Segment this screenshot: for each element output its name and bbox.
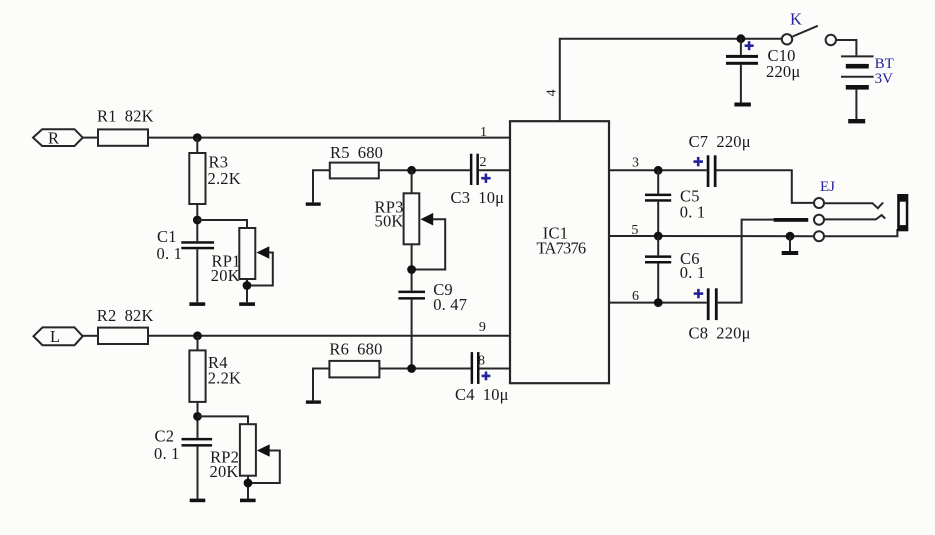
wire C6 to pin6 line [657, 264, 659, 303]
capacitor C4 10u [471, 352, 480, 384]
wire IC pin 4 to supply rail [560, 39, 782, 122]
wire junction to R3 [196, 138, 198, 153]
wire C7 to jack tip contact [717, 170, 814, 203]
svg-text:8: 8 [478, 353, 485, 368]
resistor R4 2.2K [189, 350, 205, 402]
node jack contact 3 [814, 231, 824, 241]
wire C9 to R6/C4 node [411, 300, 413, 369]
svg-text:4: 4 [545, 89, 560, 96]
wire C10 to ground [740, 65, 742, 103]
node junction R1/R3 [193, 133, 202, 142]
wire RP2 bottom [247, 476, 249, 499]
node junction R4/C2/RP2 [193, 412, 202, 421]
svg-text:EJ: EJ [820, 179, 835, 195]
ground RP2 [240, 499, 256, 503]
wire R3 to C1 [196, 204, 198, 241]
svg-text:5: 5 [631, 223, 638, 238]
svg-text:6: 6 [632, 289, 639, 304]
node junction R5/RP3/C3 [407, 166, 416, 175]
node junction pin5/ground [786, 232, 795, 241]
wire C1 to ground [196, 249, 198, 302]
ground RP1 [239, 302, 255, 306]
resistor R1 82K [98, 129, 148, 145]
wire C6 top [657, 236, 659, 255]
node junction R3/C1/RP1 [193, 216, 202, 225]
resistor R6 680 [329, 361, 379, 378]
wire junction to RP3 [411, 170, 413, 193]
svg-text:R2 82K: R2 82K [97, 306, 154, 325]
wire jack contact 3 to barrel [824, 229, 897, 236]
ground C2 [190, 499, 206, 503]
node jack contact 2 [814, 215, 824, 225]
wire jack contact 2 switch [824, 215, 885, 219]
wire RP3 to C9 [411, 244, 413, 290]
wire C5 to pin5 line [657, 202, 659, 236]
wire R input to R1 [83, 137, 98, 139]
node L input terminal [34, 327, 83, 345]
svg-text:BT: BT [875, 56, 894, 72]
wire R6 to C4 [379, 368, 470, 370]
node jack contact 1 [814, 198, 824, 208]
svg-text:9: 9 [479, 320, 486, 335]
polarity plus C4 [482, 372, 491, 381]
node junction R6/C9/C4 [407, 364, 416, 373]
wire IC pin 6 to C8 [609, 302, 707, 304]
svg-text:R5 680: R5 680 [330, 143, 383, 162]
capacitor C3 10u [470, 154, 479, 185]
svg-text:0. 1: 0. 1 [680, 202, 706, 221]
capacitor C1 0.1 [181, 241, 214, 249]
node junction RP1 wiper/bottom [243, 281, 252, 290]
polarity plus C10 [745, 41, 754, 50]
wire RP1 bottom [246, 279, 248, 302]
svg-text:0. 1: 0. 1 [680, 263, 706, 282]
capacitor C7 220u [707, 155, 717, 187]
wire C10 top [740, 39, 742, 55]
ground battery [848, 119, 865, 123]
svg-text:K: K [790, 10, 802, 29]
wire jack contact 1 switch [824, 203, 883, 209]
wire junction to R4 [197, 336, 199, 351]
svg-text:1: 1 [480, 125, 487, 140]
node junction pin6/C6/C8 [654, 298, 663, 307]
battery BT 3V [841, 56, 874, 89]
svg-text:R1 82K: R1 82K [97, 107, 154, 126]
earphone jack EJ barrel [897, 194, 908, 231]
node junction pin5/C6 [654, 232, 663, 241]
capacitor C2 0.1 [182, 438, 213, 447]
node junction RP2 wiper/bottom [244, 479, 253, 488]
wire R5 to C3 [379, 169, 470, 171]
wire C3 to IC pin 2 [479, 169, 511, 171]
op-amp U1 IC1 TA7376 body [510, 121, 609, 383]
wire battery to ground [855, 90, 857, 119]
node junction RP3/C9 [407, 265, 416, 274]
wire L input to R2 [83, 335, 98, 337]
ground C10 [734, 103, 751, 107]
svg-text:3V: 3V [875, 71, 894, 87]
capacitor C6 0.1 [645, 255, 671, 263]
potentiometer RP2 20K [240, 424, 280, 483]
wire IC pin 3 to C7 [609, 169, 707, 171]
ground R6 [306, 400, 321, 403]
svg-text:50K: 50K [375, 212, 404, 231]
svg-text:20K: 20K [211, 266, 240, 285]
wire junction to RP2 top [198, 416, 249, 424]
polarity plus C7 [694, 157, 704, 166]
node junction supply/C10 [737, 34, 746, 43]
svg-text:R: R [48, 129, 59, 148]
wire C2 to ground [197, 447, 199, 499]
ground jack common [782, 251, 799, 255]
resistor R3 2.2K [189, 153, 205, 204]
capacitor C9 0.47 [398, 291, 425, 300]
svg-text:C3 10μ: C3 10μ [451, 188, 505, 207]
resistor R5 680 [330, 163, 379, 179]
svg-text:2.2K: 2.2K [208, 169, 241, 188]
capacitor C5 0.1 [645, 194, 671, 202]
svg-text:0. 1: 0. 1 [154, 444, 180, 463]
svg-text:C4 10μ: C4 10μ [455, 385, 509, 404]
svg-text:C8 220μ: C8 220μ [689, 323, 751, 342]
wire junction to RP1 top [197, 220, 247, 228]
node junction pin3/C5/C7 [654, 166, 663, 175]
svg-text:2.2K: 2.2K [208, 368, 241, 387]
svg-text:3: 3 [632, 155, 639, 170]
wire R4 to C2 [197, 402, 199, 438]
ground R5 [306, 202, 321, 205]
node junction R2/R4 [193, 331, 202, 340]
capacitor C8 220u [707, 288, 718, 320]
svg-text:2: 2 [480, 155, 487, 170]
svg-text:TA7376: TA7376 [537, 239, 586, 258]
wire R1 to IC pin 1 [148, 137, 511, 139]
polarity plus C3 [481, 174, 490, 183]
svg-text:C7 220μ: C7 220μ [689, 132, 751, 151]
jack ring bar [774, 218, 809, 222]
svg-text:220μ: 220μ [766, 62, 800, 81]
wire C8 to jack ring contact [718, 220, 774, 303]
switch K [782, 26, 836, 45]
node R input terminal [33, 129, 83, 146]
wire pin3 junction to C5 [657, 170, 659, 193]
svg-text:0. 1: 0. 1 [157, 244, 183, 263]
capacitor C10 220u [726, 55, 758, 65]
wire ground to R6 [313, 369, 329, 401]
svg-text:R6 680: R6 680 [329, 340, 382, 359]
ground C1 [189, 302, 205, 306]
wire ground to R5 [313, 170, 330, 202]
potentiometer RP3 50K [404, 193, 446, 269]
wire switch to battery [836, 40, 856, 55]
wire pin5 ground stub [789, 236, 791, 251]
svg-text:C2: C2 [155, 426, 175, 445]
potentiometer RP1 20K [239, 228, 272, 286]
svg-text:0. 47: 0. 47 [433, 295, 467, 314]
svg-text:L: L [50, 327, 60, 346]
wire IC pin 5 to jack [609, 235, 814, 237]
svg-text:20K: 20K [210, 462, 239, 481]
wire R2 to IC pin 9 [148, 335, 511, 337]
resistor R2 82K [98, 328, 148, 344]
wire C4 to IC pin 8 [480, 368, 511, 370]
polarity plus C8 [694, 289, 704, 298]
